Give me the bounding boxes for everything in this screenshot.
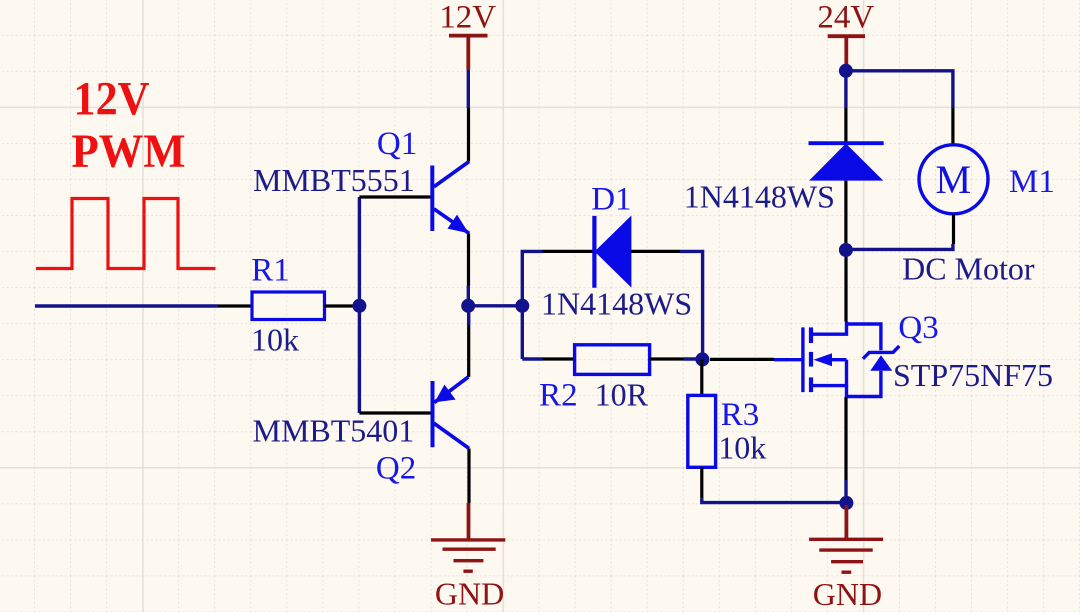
label 12V PWM (72, 73, 186, 179)
node collector junction (461, 299, 475, 313)
wire motor to drain node (846, 244, 953, 249)
svg-text:MMBT5401: MMBT5401 (253, 413, 415, 449)
pin Q1 base (359, 195, 431, 198)
node 24V junction (839, 64, 853, 78)
pin Q1 collector (467, 108, 470, 162)
pin R2 left (543, 357, 575, 360)
wire Q2 collector to node (467, 306, 470, 325)
resistor R2 (575, 345, 650, 375)
node base junction (352, 299, 366, 313)
svg-text:PWM: PWM (72, 125, 186, 178)
pin motor plus (951, 108, 954, 144)
wire D1 left loop (522, 251, 542, 359)
svg-text:1N4148WS: 1N4148WS (684, 179, 835, 215)
pin Q3 gate (710, 358, 774, 361)
svg-text:10R: 10R (595, 376, 649, 412)
svg-text:GND: GND (435, 576, 504, 612)
svg-text:M: M (936, 157, 972, 202)
svg-text:STP75NF75: STP75NF75 (893, 357, 1053, 393)
svg-text:MMBT5551: MMBT5551 (253, 162, 415, 198)
resistor R3 (688, 395, 716, 467)
svg-text:R2: R2 (539, 377, 578, 413)
pin D1 cathode (543, 250, 593, 253)
svg-text:R3: R3 (721, 397, 760, 433)
node D1 left junction (515, 299, 529, 313)
wire to 12V (467, 70, 470, 108)
transistor Q3 (774, 322, 899, 397)
svg-text:M1: M1 (1009, 164, 1055, 200)
pin Q3 drain (844, 251, 847, 322)
diode D1 (594, 216, 631, 288)
wire R2 left (522, 357, 542, 360)
diode D flyback 1N4148WS (809, 143, 884, 180)
motor M1 (919, 145, 988, 214)
transistor Q1 (432, 162, 469, 234)
pin motor minus (952, 214, 955, 244)
svg-text:Q1: Q1 (377, 126, 417, 162)
ground GND right (809, 505, 883, 612)
wire D1 right loop (680, 251, 703, 359)
pin Q1 emitter (467, 233, 470, 285)
svg-text:DC Motor: DC Motor (902, 251, 1035, 287)
pin Q2 collector (467, 325, 470, 377)
PWM waveform (36, 199, 216, 269)
pin R3 top (700, 359, 703, 395)
wire input net (35, 304, 218, 307)
svg-text:12V: 12V (439, 0, 496, 36)
pin Q2 emitter (467, 449, 470, 504)
pin Q2 base (359, 411, 431, 414)
svg-text:GND: GND (813, 576, 882, 612)
svg-text:24V: 24V (817, 0, 874, 36)
wire R2 to gate node (684, 357, 703, 360)
node gate junction (695, 352, 709, 366)
pin R2 right (650, 357, 684, 360)
wire output net (468, 304, 522, 307)
node drain junction (839, 243, 853, 257)
svg-text:12V: 12V (74, 73, 150, 126)
resistor R1 (252, 292, 325, 320)
svg-text:D1: D1 (591, 182, 631, 218)
pin flyback diode anode (844, 181, 847, 251)
svg-text:Q3: Q3 (898, 310, 938, 346)
power 12V (439, 0, 496, 70)
wire R3 to ground node (702, 498, 845, 502)
transistor Q2 (433, 377, 470, 449)
node source ground junction (839, 496, 853, 510)
svg-text:10k: 10k (251, 322, 299, 358)
svg-text:10k: 10k (718, 429, 766, 465)
wire 24V to diode (844, 71, 847, 107)
wire 24V to motor (846, 71, 953, 108)
wire base vertical (358, 197, 361, 413)
pin D1 anode (631, 250, 680, 253)
svg-text:R1: R1 (251, 253, 290, 289)
power 24V (817, 0, 874, 66)
svg-text:1N4148WS: 1N4148WS (541, 285, 692, 321)
pin R3 bottom (700, 467, 703, 498)
pin flyback diode cathode (844, 107, 847, 143)
wire emitter to node (467, 286, 470, 306)
pin R1 left (218, 304, 252, 307)
pin Q3 source (844, 397, 847, 480)
pin R1 right (325, 304, 361, 307)
ground GND left (431, 503, 505, 612)
svg-text:Q2: Q2 (376, 451, 416, 487)
wire source to ground node (844, 480, 847, 503)
